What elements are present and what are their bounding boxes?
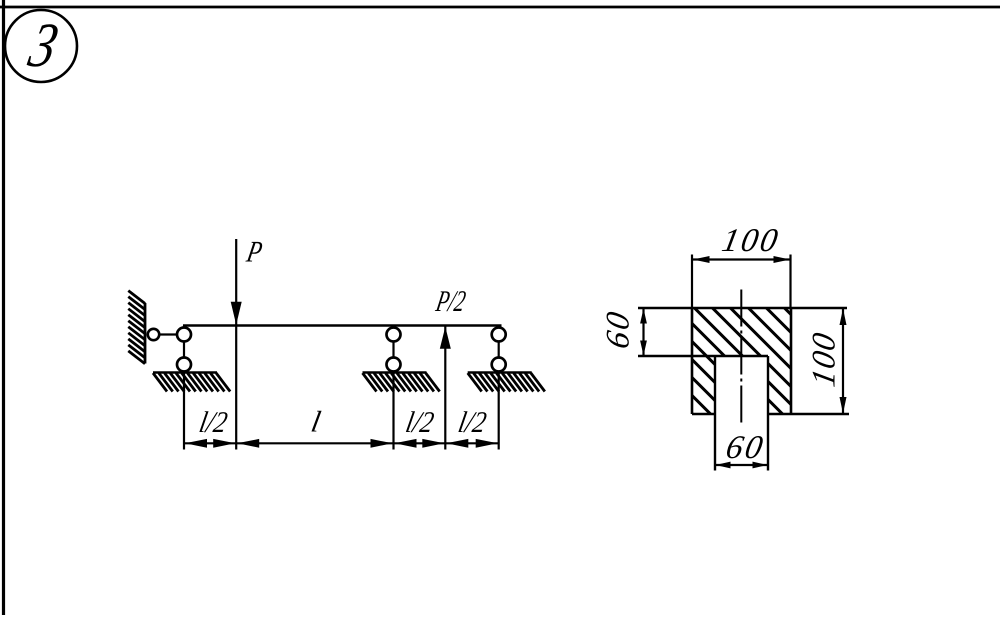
svg-text:3: 3	[22, 9, 64, 80]
svg-text:P/2: P/2	[433, 284, 469, 317]
link wall to left support	[150, 333, 184, 335]
svg-text:l: l	[308, 405, 323, 439]
left dimension line 60	[640, 308, 647, 356]
middle support lower hinge circle	[387, 358, 401, 372]
dimension arrowheads l/2 segment 1	[185, 439, 235, 448]
left support upper hinge circle	[177, 328, 191, 342]
middle support ground hatching	[363, 373, 440, 392]
label 100 right	[806, 329, 843, 390]
beam	[183, 324, 502, 327]
svg-text:l/2: l/2	[197, 406, 230, 439]
label 60 left	[600, 307, 637, 352]
dimension arrowheads l segment	[237, 439, 392, 448]
svg-text:l/2: l/2	[403, 406, 436, 439]
left support lower hinge circle	[177, 358, 191, 372]
label P	[243, 235, 265, 268]
svg-text:P: P	[243, 235, 265, 268]
section right edge	[790, 308, 793, 414]
middle support vertical link / extension line	[392, 326, 394, 450]
task number 3	[22, 9, 64, 80]
svg-text:100: 100	[806, 329, 843, 390]
right dimension line 100	[840, 309, 847, 414]
top dimension extension lines	[692, 255, 791, 309]
top dimension line 100	[693, 256, 790, 263]
middle support upper hinge circle	[387, 328, 401, 342]
label l middle span	[308, 405, 323, 439]
dimension arrowheads l/2 segment 3	[446, 439, 497, 448]
task number circle	[5, 10, 77, 82]
force P/2 arrow	[440, 327, 451, 450]
force P arrow	[231, 239, 242, 450]
cross-section hatching	[585, 306, 895, 418]
section centre line	[740, 290, 742, 424]
label P/2	[433, 284, 469, 317]
notch top edge with extension	[638, 355, 768, 357]
notch right edge / extension line	[767, 356, 769, 471]
svg-text:100: 100	[719, 222, 783, 259]
page left border	[2, 0, 5, 615]
beam dimension line	[184, 442, 499, 444]
hinge circle at wall	[148, 329, 159, 340]
left support ground line	[153, 371, 217, 374]
section left edge	[691, 308, 694, 414]
bottom dimension line 60	[715, 462, 768, 469]
label l/2 fourth span	[456, 406, 489, 439]
label 100 top	[719, 222, 783, 259]
section top edge with extension	[638, 307, 847, 310]
wall hatching	[128, 291, 145, 364]
right support ground hatching	[468, 373, 545, 392]
left support ground hatching	[153, 373, 230, 392]
left support vertical link / extension line	[183, 326, 185, 450]
dimension arrowheads l/2 segment 2	[395, 439, 445, 448]
right support upper hinge circle	[492, 328, 506, 342]
section bottom edge left part	[692, 413, 715, 416]
wall line	[144, 303, 147, 364]
right support ground line	[468, 371, 532, 374]
svg-text:60: 60	[723, 429, 768, 466]
section bottom edge right part with extension	[768, 413, 849, 416]
label l/2 first span	[197, 406, 230, 439]
notch left edge / extension line	[714, 356, 716, 471]
label l/2 third span	[403, 406, 436, 439]
middle support ground line	[363, 371, 427, 374]
svg-text:l/2: l/2	[456, 406, 489, 439]
svg-text:60: 60	[600, 307, 637, 352]
label 60 bottom	[723, 429, 768, 466]
right support vertical link / extension line	[498, 326, 500, 450]
right support lower hinge circle	[492, 358, 506, 372]
page top border	[0, 6, 1000, 9]
